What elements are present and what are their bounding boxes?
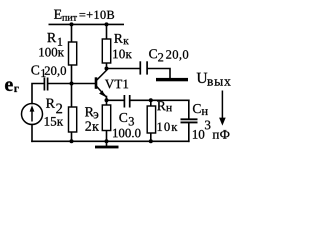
wire R2 to bottom rail — [71, 132, 73, 141]
node base — [70, 82, 74, 86]
label C1 — [31, 65, 45, 77]
transistor VT1 emitter arrow — [99, 90, 105, 96]
label 100к — [39, 48, 64, 57]
node rail-R1 — [70, 22, 74, 26]
wire Rн bottom stub — [150, 133, 152, 141]
label Rэ — [85, 107, 98, 118]
common bar at C2 output — [156, 78, 188, 81]
label R2 — [46, 99, 62, 114]
label Епит=+10В — [54, 10, 114, 21]
wire R1 bottom to base node — [71, 65, 73, 84]
label 10кН — [158, 123, 178, 132]
generator eг circle — [22, 104, 43, 125]
transistor VT1 base bar — [95, 77, 98, 89]
label 10^3пФ — [193, 121, 229, 139]
node Rн top — [149, 98, 153, 102]
node Rн-rail — [149, 139, 153, 143]
capacitor C3 — [124, 95, 129, 108]
transistor VT1 collector — [97, 70, 107, 80]
resistor R1 — [69, 42, 77, 65]
wire emitter node to Rэ — [106, 100, 108, 105]
node emitter — [105, 98, 109, 102]
wire R1 top stub — [71, 24, 73, 42]
resistor Rн — [147, 106, 155, 133]
label Uвых — [197, 73, 231, 86]
wire eг to C1 — [32, 84, 44, 104]
wire Cн bottom — [188, 123, 190, 142]
label R1 — [47, 33, 62, 46]
capacitor C2 — [140, 61, 147, 74]
node rail-Rк — [105, 22, 109, 26]
generator eг arrowhead — [30, 105, 35, 111]
label VT1 — [105, 80, 128, 89]
label 20,0б — [166, 50, 188, 60]
wire C2 to common stub — [148, 69, 170, 78]
label Rн — [157, 101, 172, 111]
wire eг bottom — [31, 125, 33, 142]
wire Rк top stub — [106, 24, 108, 39]
label 10кК — [113, 50, 132, 59]
label 20,0а — [45, 66, 66, 76]
node collector — [105, 67, 109, 71]
wire Cн top — [188, 100, 190, 119]
resistor Rк — [102, 39, 110, 63]
wire base node to R2 — [71, 84, 73, 108]
capacitor Cн — [181, 119, 198, 122]
resistor Rэ — [102, 105, 110, 131]
power rail Епит — [49, 23, 123, 25]
label 15к — [45, 117, 63, 126]
label Rк — [114, 34, 129, 44]
ground bar — [95, 146, 119, 149]
transistor VT1 emitter — [97, 86, 107, 97]
wire Rк to collector node — [106, 63, 108, 69]
resistor R2 — [69, 107, 77, 132]
capacitor C1 — [44, 78, 47, 91]
label 2к — [85, 121, 99, 130]
label C3 — [119, 113, 134, 126]
Uвых arrow — [221, 91, 223, 120]
label ег — [5, 81, 19, 92]
wire C3 to load — [130, 99, 189, 101]
bottom rail — [32, 140, 189, 142]
node Rэ-rail — [105, 139, 109, 143]
label Cн — [193, 104, 208, 115]
wire ground stub — [106, 141, 108, 146]
wire Rн top stub — [150, 100, 152, 106]
wire collector node to C2 — [107, 68, 140, 70]
label 100.0 — [113, 129, 140, 138]
wire C1 to base — [48, 83, 95, 85]
wire emitter node to C3 — [107, 99, 124, 101]
label C2 — [149, 49, 163, 61]
wire emitter to emitter node — [106, 97, 108, 101]
wire Rэ to bottom rail — [106, 131, 108, 142]
node R2-rail — [70, 139, 74, 143]
